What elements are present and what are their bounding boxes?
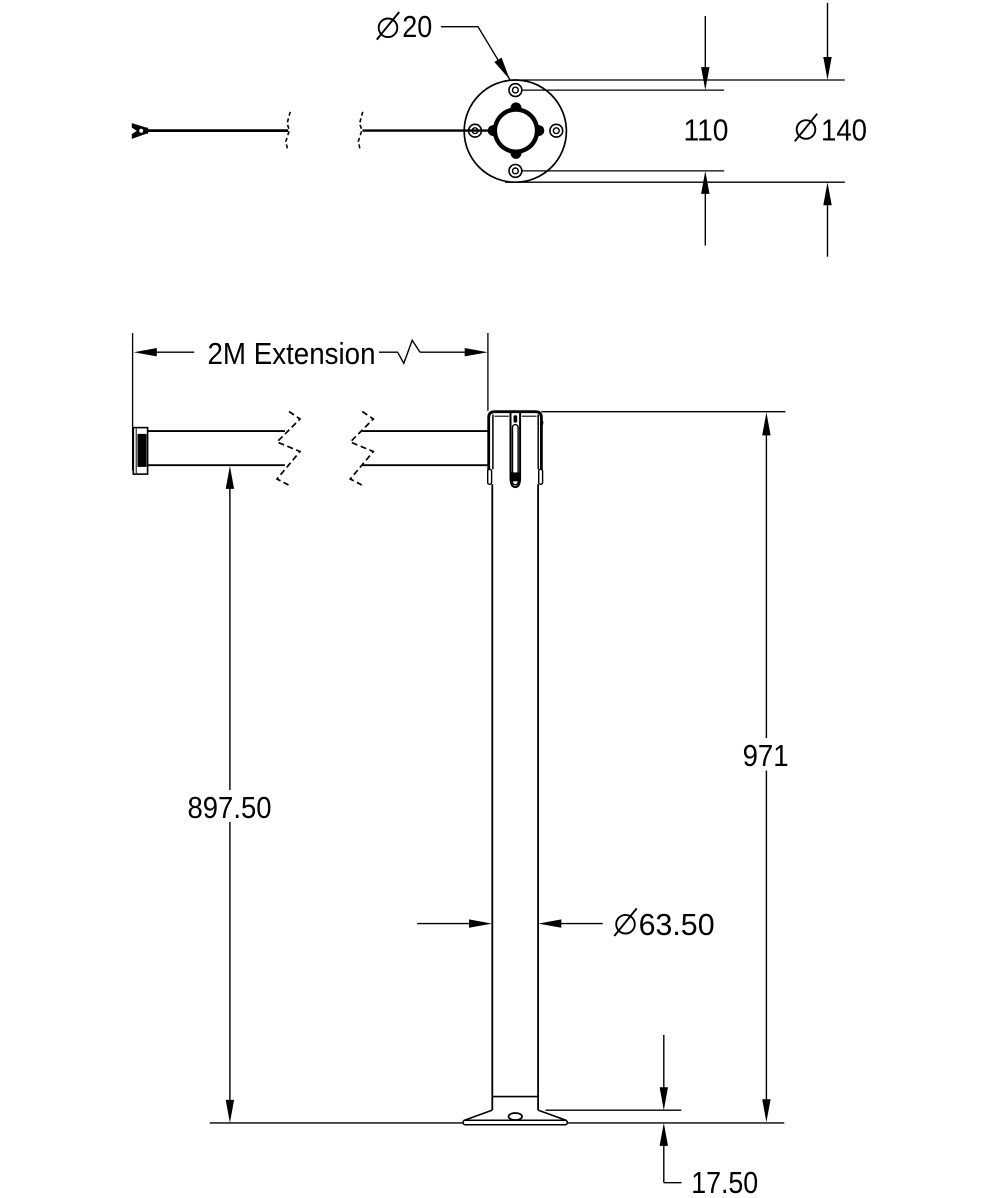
hub tab south (510, 153, 521, 159)
svg-text:897.50: 897.50 (188, 791, 272, 825)
post head inner top edge left (495, 415, 509, 417)
bolt hole bottom (509, 165, 522, 178)
dimension 2M Extension left arrow (134, 348, 194, 356)
belt bottom edge segment A (front view) (148, 464, 285, 466)
extension line dia140 bottom tangent (505, 181, 845, 183)
svg-text:110: 110 (684, 113, 729, 147)
svg-text:17.50: 17.50 (691, 1166, 758, 1198)
post tube right edge (537, 484, 539, 1110)
hub tab north (510, 102, 521, 108)
dimension 897.50 bottom arrow (226, 822, 234, 1123)
leader line dia20 (441, 27, 510, 80)
dimension dia63.50 left arrow (417, 919, 492, 927)
dimension 17.50 top arrow (660, 1035, 668, 1110)
post head outline (489, 412, 542, 485)
label dia20 text (377, 10, 433, 44)
small nub right side of head (541, 421, 543, 424)
dimension text dia63.50 (614, 908, 714, 942)
belt break symbol left (front view) (277, 412, 300, 486)
belt bottom edge segment B (front view) (362, 464, 488, 466)
belt end clip (front view) (133, 428, 147, 475)
center slot inner capsule (513, 425, 519, 485)
dimension 110 bottom arrow (701, 171, 709, 246)
belt top edge segment B (front view) (362, 430, 488, 432)
svg-text:140: 140 (821, 113, 867, 147)
bolt hole top (509, 84, 522, 97)
post head inner top edge right (522, 415, 537, 417)
post head inner wall right (537, 415, 539, 470)
dimension 897.50 top arrow (226, 466, 234, 790)
hub tab west (488, 125, 494, 136)
extension line 110 bottom (522, 170, 724, 172)
belt anchor mark top of slot (514, 415, 518, 422)
hub tab east (538, 125, 544, 136)
svg-text:20: 20 (402, 10, 432, 44)
dimension text dia140 (795, 113, 867, 147)
dimension 971 bottom arrow (762, 771, 770, 1123)
extension line 17.50 (546, 1109, 682, 1111)
base plate (463, 1120, 567, 1124)
extension line 2M right (487, 333, 489, 411)
dimension 2M Extension squiggle and right arrow (379, 340, 488, 363)
belt top edge segment A (front view) (148, 430, 285, 432)
post tube left edge (491, 484, 493, 1110)
belt segment B (top view) (363, 129, 490, 131)
belt break symbol right (top view) (358, 112, 362, 151)
belt break symbol left (top view) (286, 112, 290, 151)
extension line 971 top (541, 411, 785, 413)
base cone right slant (538, 1110, 567, 1120)
extension line 2M left (132, 333, 134, 471)
center hub ring (post top with 4-way belt slots) (493, 107, 540, 154)
belt break symbol right (front view) (350, 412, 373, 486)
dimension 971 top arrow (762, 412, 770, 738)
belt segment A (top view) (148, 129, 288, 132)
belt clip pin hole (top view) (139, 129, 143, 133)
post head inner wall left (492, 415, 494, 470)
extension line dia140 top tangent (513, 79, 845, 81)
belt end inside slot (511, 472, 519, 481)
belt slot cover right (539, 469, 543, 484)
base plate outer circle (top view, dia 140) (464, 80, 566, 182)
belt slot cover left (488, 469, 492, 484)
svg-text:971: 971 (743, 739, 789, 773)
dimension dia63.50 right arrow (538, 919, 603, 927)
base collar line (492, 1096, 538, 1098)
dimension 17.50 bottom arrow and leader (660, 1123, 682, 1183)
center slot outer outline (511, 413, 521, 487)
extension line 110 top (522, 89, 724, 91)
base cone left slant (464, 1110, 493, 1120)
svg-text:63.50: 63.50 (639, 908, 715, 942)
base screw hole ellipse (509, 1113, 523, 1120)
svg-text:2M Extension: 2M Extension (208, 337, 376, 371)
dimension dia140 top arrow (823, 3, 831, 80)
ground line (210, 1122, 785, 1124)
bolt hole right (550, 124, 563, 137)
leader arrowhead dia20 (494, 58, 509, 80)
bolt hole left (469, 124, 482, 137)
dimension 110 top arrow (701, 16, 709, 90)
belt end clip (top view) (132, 124, 148, 139)
dimension dia140 bottom arrow (823, 182, 831, 257)
